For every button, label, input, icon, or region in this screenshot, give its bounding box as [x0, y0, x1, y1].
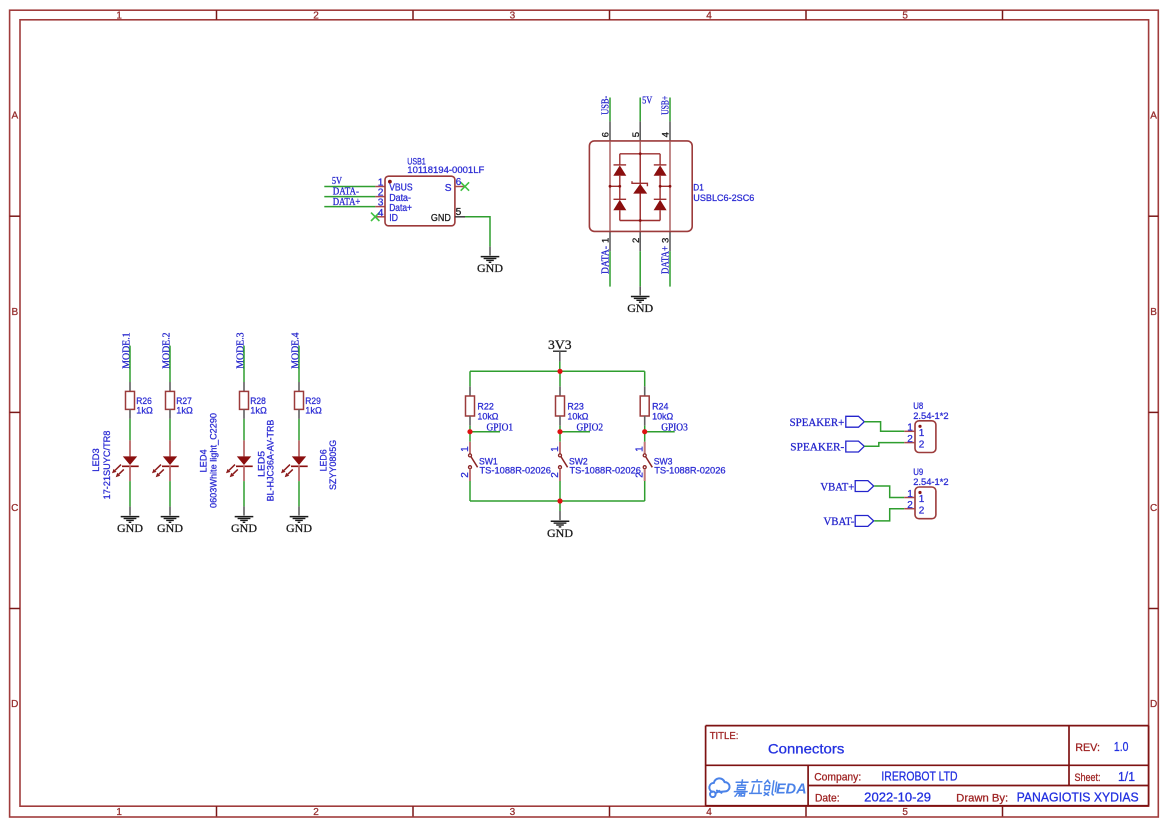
svg-text:SPEAKER+: SPEAKER+	[790, 417, 845, 429]
svg-text:Connectors: Connectors	[768, 741, 844, 757]
svg-text:D: D	[11, 699, 18, 710]
svg-text:LED3: LED3	[91, 448, 102, 471]
svg-text:2: 2	[313, 807, 319, 818]
svg-text:S: S	[445, 183, 452, 194]
svg-text:2: 2	[550, 472, 561, 478]
svg-text:USB+: USB+	[660, 96, 671, 115]
svg-text:2: 2	[907, 500, 913, 511]
svg-text:5: 5	[456, 207, 462, 218]
svg-text:17-21SUYC/TR8: 17-21SUYC/TR8	[102, 431, 113, 500]
svg-text:2: 2	[919, 505, 925, 516]
svg-text:6: 6	[601, 132, 612, 137]
svg-text:4: 4	[706, 10, 712, 21]
svg-text:B: B	[1150, 307, 1157, 318]
svg-text:PANAGIOTIS XYDIAS: PANAGIOTIS XYDIAS	[1017, 790, 1139, 804]
svg-text:C: C	[1150, 503, 1157, 514]
svg-text:GND: GND	[117, 521, 143, 535]
svg-text:10kΩ: 10kΩ	[477, 411, 498, 422]
svg-text:1: 1	[919, 494, 925, 505]
svg-text:5: 5	[902, 807, 908, 818]
svg-text:1kΩ: 1kΩ	[305, 405, 322, 416]
svg-text:USBLC6-2SC6: USBLC6-2SC6	[693, 193, 754, 204]
svg-text:DATA-: DATA-	[600, 246, 611, 274]
svg-text:GND: GND	[157, 521, 183, 535]
svg-text:2.54-1*2: 2.54-1*2	[913, 411, 948, 422]
svg-text:6: 6	[456, 177, 462, 188]
svg-text:GND: GND	[627, 301, 653, 315]
svg-text:DATA+: DATA+	[333, 197, 361, 208]
svg-text:Company:: Company:	[814, 771, 861, 783]
svg-text:2022-10-29: 2022-10-29	[864, 790, 931, 804]
svg-text:D1: D1	[693, 182, 704, 193]
svg-text:EDA: EDA	[776, 782, 807, 798]
svg-text:USB-: USB-	[601, 96, 612, 115]
svg-text:2: 2	[631, 238, 642, 243]
svg-text:GND: GND	[286, 521, 312, 535]
svg-text:3: 3	[510, 10, 516, 21]
svg-text:1: 1	[116, 807, 122, 818]
svg-text:4: 4	[378, 208, 384, 219]
svg-text:0603White light_C2290: 0603White light_C2290	[209, 413, 220, 508]
svg-text:1: 1	[919, 428, 925, 439]
svg-text:5V: 5V	[642, 96, 653, 107]
svg-text:GPIO3: GPIO3	[661, 422, 688, 433]
svg-text:1: 1	[907, 423, 913, 434]
svg-text:2: 2	[919, 439, 925, 450]
svg-text:3: 3	[661, 238, 672, 243]
svg-text:1: 1	[460, 446, 471, 452]
svg-text:5: 5	[902, 10, 908, 21]
svg-text:BL-HJC36A-AV-TRB: BL-HJC36A-AV-TRB	[266, 420, 277, 502]
svg-text:1: 1	[550, 446, 561, 452]
svg-text:2.54-1*2: 2.54-1*2	[913, 477, 948, 488]
svg-text:DATA+: DATA+	[660, 246, 671, 274]
svg-text:2: 2	[460, 472, 471, 478]
svg-text:GPIO2: GPIO2	[577, 422, 604, 433]
svg-text:GND: GND	[231, 521, 257, 535]
svg-text:4: 4	[661, 132, 672, 137]
svg-text:SZYY0805G: SZYY0805G	[328, 440, 339, 490]
svg-text:10118194-0001LF: 10118194-0001LF	[407, 165, 484, 176]
svg-text:SPEAKER-: SPEAKER-	[790, 442, 844, 454]
svg-text:1kΩ: 1kΩ	[250, 405, 266, 416]
svg-text:10kΩ: 10kΩ	[567, 411, 588, 422]
svg-text:GPIO1: GPIO1	[487, 422, 514, 433]
svg-text:1: 1	[907, 489, 913, 500]
svg-text:TS-1088R-02026: TS-1088R-02026	[480, 465, 551, 476]
svg-text:Drawn By:: Drawn By:	[956, 793, 1008, 805]
svg-text:C: C	[11, 503, 18, 514]
svg-text:5: 5	[631, 132, 642, 137]
svg-text:GND: GND	[547, 526, 573, 540]
svg-text:5V: 5V	[332, 176, 343, 187]
svg-text:IREROBOT LTD: IREROBOT LTD	[881, 769, 957, 783]
svg-text:B: B	[11, 307, 18, 318]
svg-text:3: 3	[510, 807, 516, 818]
svg-text:A: A	[11, 111, 18, 122]
svg-text:D: D	[1150, 699, 1157, 710]
svg-text:A: A	[1150, 111, 1157, 122]
svg-text:ID: ID	[389, 213, 398, 224]
svg-text:4: 4	[706, 807, 712, 818]
svg-text:Sheet:: Sheet:	[1075, 772, 1101, 784]
svg-text:TITLE:: TITLE:	[710, 731, 739, 742]
svg-text:1: 1	[116, 10, 122, 21]
svg-text:TS-1088R-02026: TS-1088R-02026	[654, 465, 725, 476]
svg-text:10kΩ: 10kΩ	[652, 411, 673, 422]
svg-text:REV:: REV:	[1075, 742, 1100, 754]
svg-text:2: 2	[907, 434, 913, 445]
svg-text:2: 2	[313, 10, 319, 21]
svg-text:1/1: 1/1	[1118, 770, 1135, 784]
svg-text:Date:: Date:	[815, 792, 840, 804]
svg-text:1: 1	[635, 446, 646, 452]
svg-text:1.0: 1.0	[1114, 740, 1129, 754]
svg-text:1kΩ: 1kΩ	[136, 405, 153, 416]
svg-text:1kΩ: 1kΩ	[176, 405, 193, 416]
svg-text:3V3: 3V3	[548, 337, 572, 352]
svg-text:2: 2	[635, 472, 646, 478]
svg-text:GND: GND	[431, 213, 451, 224]
svg-text:TS-1088R-02026: TS-1088R-02026	[570, 465, 641, 476]
svg-text:GND: GND	[477, 261, 503, 275]
svg-text:VBAT+: VBAT+	[820, 481, 854, 493]
svg-text:1: 1	[601, 238, 612, 243]
svg-text:VBAT-: VBAT-	[824, 516, 855, 528]
